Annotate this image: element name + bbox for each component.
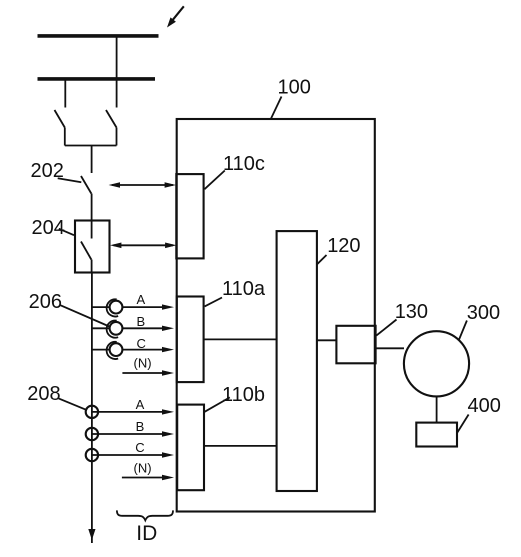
wire: phase C line (206) — [92, 349, 110, 351]
leader 208 — [59, 398, 88, 410]
bus bar 2 — [38, 77, 156, 81]
leader 110a — [205, 298, 222, 307]
wire: inside 204 top — [91, 221, 93, 239]
wire: center tap down — [91, 146, 93, 174]
leader 120 — [317, 255, 327, 264]
wire: feeder drop left — [64, 79, 66, 108]
svg-text:ID: ID — [136, 522, 157, 545]
arrow down (feeder bottom) — [88, 529, 95, 540]
svg-text:110c: 110c — [223, 153, 265, 175]
wire: 120 to 130 — [317, 339, 337, 341]
wire: 110a to 120 — [204, 338, 277, 340]
tap circle C — [86, 449, 98, 461]
box 120 — [277, 231, 317, 491]
leader 202 — [58, 178, 82, 182]
svg-text:C: C — [137, 336, 146, 351]
leader 300 — [459, 321, 467, 340]
pointer arrow (top) — [167, 6, 184, 27]
leader 206 — [60, 305, 110, 327]
svg-text:110b: 110b — [222, 384, 265, 406]
box 100 (meter enclosure) — [177, 119, 375, 512]
brace (ID) — [117, 510, 173, 520]
wire: inside 204 bottom — [91, 260, 93, 273]
svg-text:(N): (N) — [134, 460, 152, 475]
switch blade in 204 — [81, 242, 91, 260]
svg-text:B: B — [136, 419, 145, 434]
leader 130 — [376, 320, 396, 336]
wire: phase C line (208) — [92, 454, 165, 456]
leader 204 — [59, 229, 74, 236]
wire: phase A line (206) — [92, 306, 110, 308]
svg-text:206: 206 — [29, 291, 62, 313]
CT A clamp arc — [107, 299, 119, 316]
bus bar 1 — [38, 34, 159, 38]
svg-text:100: 100 — [278, 76, 311, 98]
svg-text:130: 130 — [395, 301, 428, 323]
box 110a — [177, 297, 204, 383]
wire: phase A line (208) — [92, 411, 165, 413]
svg-text:400: 400 — [468, 395, 501, 417]
wire: switch bottom connector — [65, 145, 117, 147]
breaker switch left — [55, 110, 65, 146]
tap circle A — [86, 406, 98, 418]
box 130 — [336, 326, 375, 364]
wire: main feeder line — [91, 273, 93, 544]
leader 110b — [205, 397, 230, 411]
box 110c — [176, 174, 203, 258]
wire: phase B line (208) — [92, 433, 165, 435]
circle 300 (display) — [404, 331, 469, 396]
CT A circle — [110, 301, 123, 314]
svg-text:208: 208 — [27, 383, 60, 405]
leader 110c — [205, 171, 225, 190]
svg-text:A: A — [136, 397, 145, 412]
switch 202 — [81, 176, 91, 194]
svg-text:(N): (N) — [134, 356, 152, 371]
double arrow 202 to 110c — [109, 182, 176, 188]
wire: 130 to 300 — [376, 347, 404, 349]
svg-text:300: 300 — [467, 302, 500, 324]
CT B circle — [110, 322, 123, 335]
box 110b — [177, 405, 204, 491]
svg-text:204: 204 — [32, 217, 65, 239]
CT B clamp arc — [107, 320, 119, 337]
wire: phase B line (206) — [92, 327, 110, 329]
svg-text:A: A — [137, 292, 146, 307]
wire: neutral line (208) — [122, 477, 165, 479]
wire: 300 to 400 — [436, 396, 438, 422]
svg-text:120: 120 — [327, 235, 360, 257]
wire: 202 to 204 — [91, 194, 93, 221]
leader 100 — [271, 97, 282, 120]
tap circle B — [86, 428, 98, 440]
svg-text:B: B — [137, 314, 146, 329]
double arrow 204 to 110c — [110, 243, 177, 249]
leader 400 — [457, 415, 469, 434]
svg-text:C: C — [135, 440, 144, 455]
wire: 110b to 120 — [204, 445, 277, 447]
box 204 — [75, 221, 110, 273]
box 400 — [416, 423, 457, 447]
CT C circle — [110, 343, 123, 356]
wire: neutral line (206) — [122, 372, 165, 374]
breaker switch right — [106, 110, 117, 146]
CT C clamp arc — [107, 342, 119, 359]
svg-text:110a: 110a — [222, 278, 266, 300]
wire: feeder drop right — [116, 36, 118, 108]
